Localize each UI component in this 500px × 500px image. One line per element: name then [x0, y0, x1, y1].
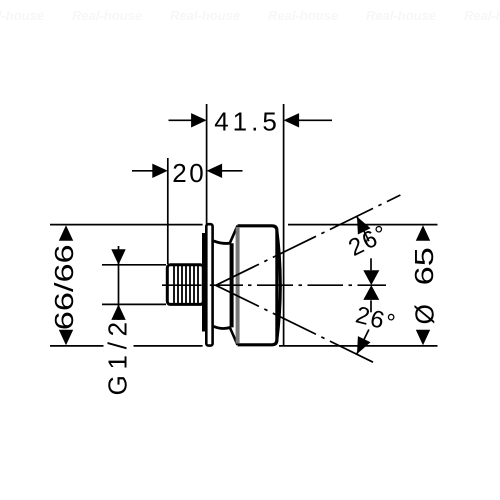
dimension 20 arrow left — [152, 164, 168, 178]
svg-text:Real-house: Real-house — [170, 8, 240, 23]
angle arrow lower far (on lower spray line) — [357, 336, 371, 354]
upper center tail — [370, 258, 372, 270]
left extension line bottom y=345.9 (gap for G1/2 text) — [50, 345, 104, 347]
neck bottom curve — [214, 326, 231, 328]
extension line at thread start x=167.8 — [167, 158, 169, 264]
G1/2 extension line bottom y=304.4 — [102, 303, 166, 305]
dimension 66/66 arrow up — [59, 225, 73, 241]
left extension line top y=224.6 — [50, 224, 203, 226]
G1/2 arrow up (below bottom line) — [111, 304, 125, 320]
dimension 20 leader left — [132, 170, 154, 172]
extension line at wall plate x=206.6 — [206, 104, 208, 224]
G1/2 extension line top y=264.8 — [102, 264, 166, 266]
G1/2 dimension line — [118, 246, 120, 320]
svg-text:20: 20 — [172, 158, 206, 188]
thread hatch lines — [174, 265, 198, 304]
spray face arc — [277, 231, 280, 341]
dimension 66/66 arrow down — [59, 330, 73, 346]
neck junction vertical — [230, 243, 234, 327]
svg-text:Real-house: Real-house — [464, 8, 500, 23]
right extension line top y=224.6 — [288, 224, 438, 226]
escutcheon flange — [206, 224, 212, 345]
svg-text:Real-house: Real-house — [0, 8, 44, 23]
spray angle line upper (26 deg) — [216, 195, 401, 285]
G1/2 arrow down (above top line) — [111, 249, 125, 264]
angle arrow upper center (points down to centerline) — [363, 270, 379, 285]
dimension diameter 65 arrow down — [416, 330, 430, 346]
angle arrow lower far tail — [357, 330, 369, 354]
dimension 20 arrow right — [207, 164, 223, 178]
dimension 20 leader right — [220, 170, 243, 172]
dimension 41.5 leader right — [297, 119, 332, 121]
svg-text:66/66: 66/66 — [50, 244, 79, 330]
svg-text:Real-house: Real-house — [72, 8, 142, 23]
wall bar (solid) — [202, 233, 207, 332]
dimension 41.5 arrow left — [191, 113, 207, 127]
head body — [238, 226, 277, 345]
cone slant bottom — [230, 327, 238, 345]
svg-text:41.5: 41.5 — [214, 106, 281, 136]
watermark row — [0, 8, 500, 23]
angle arrow lower center (points up to centerline) — [363, 285, 379, 300]
thread G1/2 body — [167, 265, 203, 305]
cone slant top — [230, 226, 238, 244]
cone-cylinder junction gray line — [236, 227, 240, 344]
angle arrow upper far (on upper spray line) — [357, 217, 371, 235]
spray angle line lower (26 deg) — [216, 285, 377, 364]
extension line at spray face x=283.6 — [283, 104, 285, 346]
svg-text:G1/2: G1/2 — [103, 316, 133, 395]
svg-text:Ø: Ø — [410, 300, 440, 325]
angle arrow upper far tail — [357, 217, 369, 241]
svg-text:Real-house: Real-house — [366, 8, 436, 23]
dimension diameter 65 arrow up — [416, 225, 430, 241]
right extension line bottom y=345.9 — [279, 345, 438, 347]
dimension 41.5 leader left — [169, 119, 194, 121]
dimension 41.5 arrow right — [284, 113, 300, 127]
centerline dash-dot — [162, 284, 386, 286]
svg-text:65: 65 — [410, 247, 439, 285]
lower center tail — [370, 300, 372, 312]
neck top curve — [214, 241, 231, 244]
svg-text:Real-house: Real-house — [268, 8, 338, 23]
